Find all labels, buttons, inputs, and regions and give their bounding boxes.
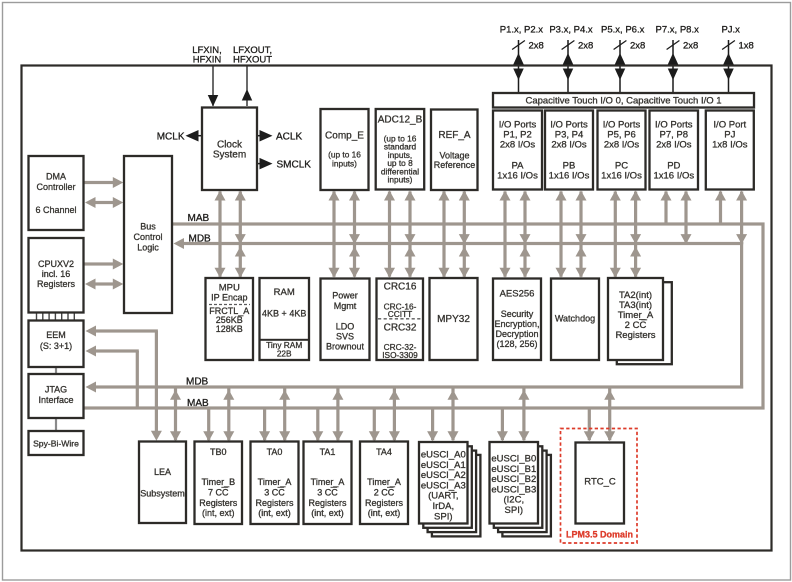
- svg-text:P7.x, P8.x: P7.x, P8.x: [656, 25, 700, 36]
- svg-text:Registers: Registers: [308, 498, 347, 508]
- svg-text:Brownout: Brownout: [326, 341, 365, 351]
- svg-text:3 CC: 3 CC: [264, 488, 285, 498]
- svg-text:Mgmt: Mgmt: [334, 301, 357, 311]
- svg-text:ADC12_B: ADC12_B: [378, 115, 423, 126]
- svg-text:Logic: Logic: [137, 243, 159, 253]
- svg-text:MDB: MDB: [186, 377, 209, 388]
- svg-text:1x16 I/Os: 1x16 I/Os: [497, 171, 538, 182]
- svg-text:(int, ext): (int, ext): [311, 508, 344, 518]
- svg-text:Registers: Registers: [255, 498, 294, 508]
- svg-text:AES256: AES256: [500, 289, 535, 300]
- svg-text:Controller: Controller: [36, 182, 75, 192]
- svg-text:Timer_A: Timer_A: [258, 477, 292, 487]
- svg-text:LDO: LDO: [336, 322, 355, 332]
- svg-text:4KB + 4KB: 4KB + 4KB: [262, 309, 306, 319]
- svg-text:2x8: 2x8: [529, 41, 544, 52]
- svg-text:2x8 I/Os: 2x8 I/Os: [604, 140, 640, 151]
- svg-text:inputs): inputs): [332, 159, 357, 169]
- svg-text:1x16 I/Os: 1x16 I/Os: [549, 171, 590, 182]
- svg-text:Registers: Registers: [365, 498, 404, 508]
- svg-text:(int, ext): (int, ext): [202, 508, 235, 518]
- svg-text:PJ.x: PJ.x: [721, 25, 740, 36]
- svg-text:2x8 I/Os: 2x8 I/Os: [656, 140, 692, 151]
- svg-text:1x8 I/Os: 1x8 I/Os: [712, 140, 748, 151]
- svg-text:CRC16: CRC16: [384, 282, 417, 293]
- svg-text:(int, ext): (int, ext): [368, 508, 401, 518]
- svg-text:HFXIN: HFXIN: [193, 55, 222, 66]
- svg-text:2x8 I/Os: 2x8 I/Os: [500, 140, 536, 151]
- svg-text:Timer_A: Timer_A: [311, 477, 345, 487]
- svg-text:Subsystem: Subsystem: [140, 489, 185, 499]
- svg-text:2x8: 2x8: [683, 41, 698, 52]
- svg-text:MAB: MAB: [187, 398, 209, 409]
- svg-text:TB0: TB0: [210, 447, 227, 457]
- svg-text:Watchdog: Watchdog: [555, 314, 595, 324]
- svg-text:MDB: MDB: [189, 234, 212, 245]
- svg-text:ACLK: ACLK: [276, 132, 302, 143]
- svg-text:System: System: [213, 150, 246, 161]
- svg-text:CPUXV2: CPUXV2: [38, 259, 74, 269]
- svg-text:(S: 3+1): (S: 3+1): [40, 341, 72, 351]
- svg-text:Timer_B: Timer_B: [201, 477, 235, 487]
- svg-text:TA4: TA4: [376, 447, 392, 457]
- svg-text:SPI): SPI): [505, 505, 523, 516]
- svg-text:1x16 I/Os: 1x16 I/Os: [601, 171, 642, 182]
- svg-text:7 CC: 7 CC: [208, 488, 229, 498]
- svg-text:LEA: LEA: [154, 467, 171, 477]
- svg-text:LPM3.5 Domain: LPM3.5 Domain: [566, 530, 633, 540]
- svg-text:Capacitive Touch I/O 0, Capaci: Capacitive Touch I/O 0, Capacitive Touch…: [525, 96, 721, 107]
- svg-text:EEM: EEM: [46, 330, 66, 340]
- svg-text:(128, 256): (128, 256): [496, 339, 537, 349]
- svg-text:Reference: Reference: [434, 160, 476, 170]
- svg-text:2 CC: 2 CC: [374, 488, 395, 498]
- svg-text:Spy-Bi-Wire: Spy-Bi-Wire: [33, 439, 79, 449]
- svg-text:Registers: Registers: [199, 498, 238, 508]
- svg-text:(int, ext): (int, ext): [258, 508, 291, 518]
- svg-text:MPY32: MPY32: [437, 314, 470, 325]
- svg-text:incl. 16: incl. 16: [42, 269, 71, 279]
- svg-text:SVS: SVS: [336, 332, 354, 342]
- svg-text:RTC_C: RTC_C: [584, 477, 616, 488]
- svg-text:2x8: 2x8: [630, 41, 645, 52]
- svg-text:6 Channel: 6 Channel: [35, 205, 76, 215]
- svg-text:MCLK: MCLK: [157, 132, 185, 143]
- svg-text:3 CC: 3 CC: [317, 488, 338, 498]
- svg-text:Encryption,: Encryption,: [494, 319, 539, 329]
- svg-text:P3.x, P4.x: P3.x, P4.x: [549, 25, 593, 36]
- svg-text:TA1: TA1: [320, 447, 336, 457]
- svg-text:CCITT: CCITT: [388, 309, 412, 319]
- svg-text:1x16 I/Os: 1x16 I/Os: [653, 171, 694, 182]
- svg-text:1x8: 1x8: [739, 41, 754, 52]
- svg-text:Power: Power: [332, 291, 358, 301]
- svg-text:2x8: 2x8: [578, 41, 593, 52]
- svg-text:RAM: RAM: [274, 287, 295, 298]
- svg-text:Security: Security: [501, 309, 534, 319]
- svg-text:Bus: Bus: [140, 222, 156, 232]
- svg-text:REF_A: REF_A: [438, 130, 471, 141]
- svg-text:JTAG: JTAG: [45, 385, 67, 395]
- svg-text:HFXOUT: HFXOUT: [233, 55, 272, 66]
- svg-text:Timer_A: Timer_A: [367, 477, 401, 487]
- svg-text:MAB: MAB: [188, 213, 210, 224]
- svg-text:Decryption: Decryption: [495, 329, 538, 339]
- svg-text:TA0: TA0: [267, 447, 283, 457]
- svg-text:CRC32: CRC32: [384, 323, 417, 334]
- svg-text:ISO-3309: ISO-3309: [382, 350, 418, 360]
- svg-text:Voltage: Voltage: [439, 151, 469, 161]
- svg-text:inputs): inputs): [388, 175, 413, 185]
- svg-text:IP Encap: IP Encap: [211, 293, 247, 303]
- svg-text:2x8 I/Os: 2x8 I/Os: [551, 140, 587, 151]
- svg-text:Comp_E: Comp_E: [325, 131, 364, 142]
- svg-text:Control: Control: [133, 232, 162, 242]
- svg-text:128KB: 128KB: [216, 324, 243, 334]
- svg-text:SMCLK: SMCLK: [277, 160, 312, 171]
- svg-text:SPI): SPI): [434, 511, 452, 522]
- svg-text:DMA: DMA: [46, 172, 66, 182]
- svg-text:P1.x, P2.x: P1.x, P2.x: [500, 25, 544, 36]
- svg-text:Interface: Interface: [38, 395, 73, 405]
- svg-text:Registers: Registers: [37, 279, 76, 289]
- svg-text:Registers: Registers: [615, 330, 655, 341]
- svg-text:22B: 22B: [277, 349, 292, 359]
- svg-text:P5.x, P6.x: P5.x, P6.x: [601, 25, 645, 36]
